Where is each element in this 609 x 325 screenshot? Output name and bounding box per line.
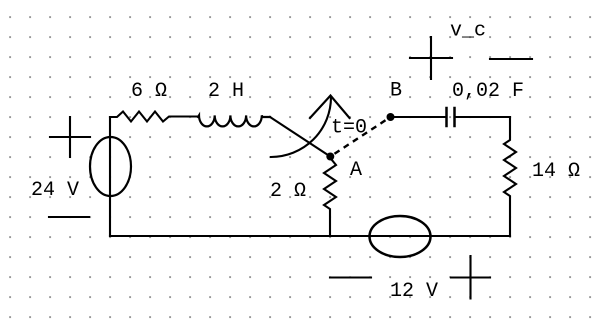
svg-text:t=0: t=0	[331, 117, 367, 140]
svg-text:14 Ω: 14 Ω	[532, 160, 580, 183]
svg-text:0,02 F: 0,02 F	[452, 80, 524, 103]
svg-text:v_c: v_c	[450, 20, 486, 43]
svg-text:24 V: 24 V	[31, 179, 79, 202]
svg-text:2 H: 2 H	[208, 80, 244, 103]
svg-text:12 V: 12 V	[390, 280, 438, 303]
svg-text:A: A	[350, 159, 362, 182]
svg-text:B: B	[390, 80, 402, 103]
svg-text:6 Ω: 6 Ω	[131, 80, 167, 103]
svg-text:2 Ω: 2 Ω	[270, 180, 306, 203]
